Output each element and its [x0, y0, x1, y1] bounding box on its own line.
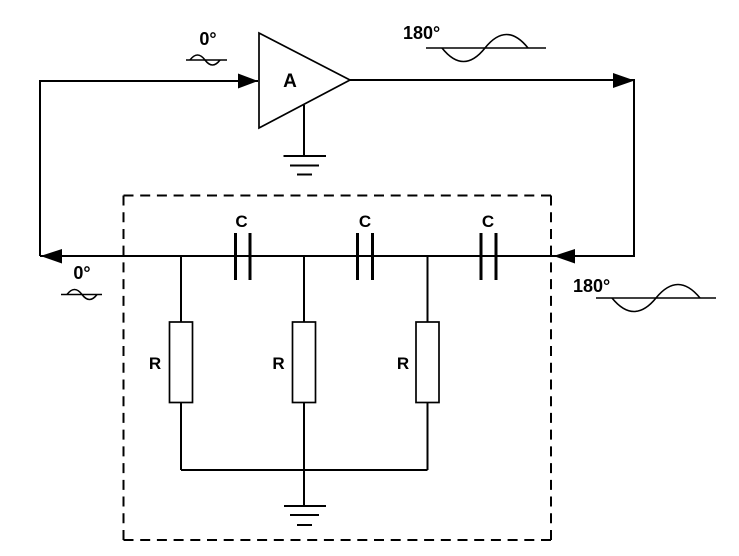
svg-text:C: C [359, 212, 371, 231]
svg-text:R: R [149, 354, 161, 373]
svg-text:180°: 180° [573, 276, 610, 296]
svg-text:C: C [235, 212, 247, 231]
svg-text:0°: 0° [199, 29, 216, 49]
svg-text:C: C [482, 212, 494, 231]
svg-text:A: A [283, 71, 297, 92]
svg-text:180°: 180° [403, 23, 440, 43]
svg-text:R: R [272, 354, 284, 373]
svg-text:R: R [397, 354, 409, 373]
svg-text:0°: 0° [73, 263, 90, 283]
